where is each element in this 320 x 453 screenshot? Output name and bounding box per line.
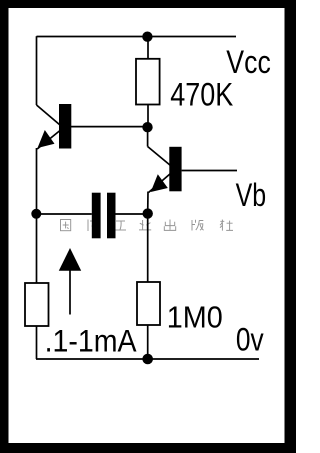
transistor Q1 base bar [59, 104, 71, 149]
svg-text:470K: 470K [170, 77, 233, 113]
wire R3 top lead from node C [147, 214, 149, 283]
transistor Q2 base bar [169, 147, 181, 192]
wire Q2 collector diagonal [148, 147, 171, 166]
svg-text:.1-1mA: .1-1mA [45, 322, 137, 358]
node top rail / R1 junction [142, 32, 152, 42]
node C right junction emitter / capacitor / R3 [143, 208, 153, 218]
wire Q1 collector diagonal [37, 105, 61, 125]
wire Q2 collector vertical from node B [147, 127, 149, 147]
wire 0v bottom rail [36, 358, 259, 360]
wire Q2 base line to Vb [182, 170, 237, 172]
transistor Q1 emitter arrow [38, 130, 55, 148]
svg-text:Vb: Vb [236, 177, 267, 213]
wire Q1 emitter diagonal [37, 131, 60, 150]
node B junction R1 / Q1 base / Q2 collector [142, 122, 152, 132]
wire R2 bottom lead to 0v rail [36, 326, 38, 359]
wire Q1 base to node B [71, 126, 148, 128]
node bottom rail / R3 junction [142, 354, 153, 365]
watermark gray text 国防工业出版社 drawn as strokes [61, 220, 234, 232]
resistor R3 1M0 body (right) [137, 282, 160, 325]
wire Vcc top rail [37, 36, 237, 38]
capacitor C1 left plate [92, 193, 101, 239]
wire Q1 collector vertical from top rail [36, 36, 38, 105]
wire left vertical emitter to node A and R2 [36, 148, 38, 283]
svg-text:Vcc: Vcc [226, 44, 270, 80]
wire capacitor right lead [116, 213, 148, 215]
wire capacitor left lead [37, 213, 92, 215]
svg-text:0v: 0v [236, 322, 264, 358]
resistor R2 body (left) [25, 283, 49, 326]
arrow current source .1-1mA pointing up [69, 270, 71, 315]
transistor Q2 emitter arrow [151, 174, 168, 192]
node A left junction emitter / capacitor [31, 209, 41, 219]
wire R3 bottom lead [147, 325, 149, 359]
resistor R1 470K body [136, 59, 160, 105]
wire R1 top lead [147, 37, 149, 59]
wire Q2 emitter to node C [147, 192, 149, 214]
wire Q2 emitter diagonal [149, 174, 171, 193]
wire R1 bottom lead [147, 105, 149, 128]
svg-text:1M0: 1M0 [167, 300, 223, 335]
capacitor C1 right plate [107, 193, 116, 239]
